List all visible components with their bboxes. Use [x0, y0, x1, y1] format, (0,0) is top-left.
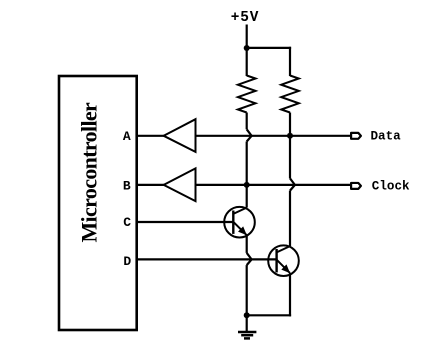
wire +5V stub: [246, 25, 248, 49]
node ground junction: [244, 312, 250, 318]
svg-text:B: B: [123, 178, 131, 193]
svg-text:+5V: +5V: [231, 10, 260, 26]
svg-text:C: C: [123, 215, 131, 230]
svg-text:Clock: Clock: [372, 180, 410, 194]
wire R1 bottom lead: [246, 113, 248, 130]
wire right rail data-to-hop: [289, 136, 291, 179]
svg-text:Microcontroller: Microcontroller: [77, 102, 102, 243]
buffer U3 (pin B): [164, 168, 196, 201]
node clock / left rail junction: [244, 182, 250, 188]
microcontroller U1 box: [59, 76, 137, 330]
transistor Q1: [224, 207, 255, 238]
wire Q1 emitter to ground rail: [246, 265, 248, 316]
wire pin B: [138, 184, 165, 186]
wire right rail to Q2 collector: [289, 191, 291, 247]
svg-text:Data: Data: [371, 130, 402, 144]
wire data line: [196, 135, 352, 137]
transistor Q2: [268, 245, 299, 276]
node data / R2 junction: [287, 133, 293, 139]
svg-text:D: D: [123, 254, 131, 269]
resistor R2: [281, 76, 299, 113]
svg-text:A: A: [123, 129, 131, 144]
wire Q1 emitter down: [246, 235, 248, 253]
wire pin D: [138, 258, 277, 260]
wire hop of right rail over clock line: [290, 178, 295, 190]
wire Q1 collector to clock node: [246, 185, 248, 208]
ground: [238, 332, 256, 338]
wire hop of Q1 emitter over pin D line: [247, 253, 252, 265]
resistor R1: [238, 76, 256, 113]
buffer U2 (pin A): [164, 119, 196, 152]
wire pin C: [138, 221, 233, 223]
connector Clock terminal: [351, 183, 361, 189]
wire supply branch right vertical: [289, 47, 291, 76]
wire clock line: [196, 184, 352, 186]
wire supply branch horizontal: [247, 47, 291, 49]
wire ground rail: [247, 314, 291, 316]
wire Q2 emitter down: [289, 273, 291, 316]
node supply junction: [244, 45, 250, 51]
connector Data terminal: [351, 133, 361, 139]
wire left rail data-to-clock: [246, 142, 248, 185]
wire hop of left rail over data line: [247, 129, 252, 141]
wire R1 top lead: [246, 48, 248, 76]
wire pin A: [138, 135, 165, 137]
wire ground stub: [246, 315, 248, 332]
wire R2 bottom lead: [289, 113, 291, 136]
